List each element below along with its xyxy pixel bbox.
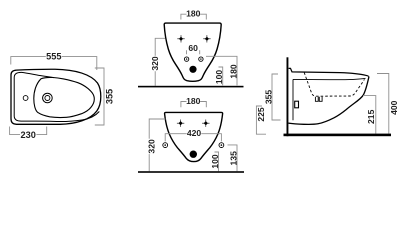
svg-text:355: 355	[104, 89, 114, 104]
dimension 355 line (plan right)	[95, 68, 104, 125]
svg-text:420: 420	[187, 128, 202, 138]
back inner edge	[292, 79, 294, 120]
dimension 420 line	[165, 134, 221, 142]
dimension 555 line	[11, 57, 97, 70]
dimension 320 lower	[149, 119, 165, 171]
dimension 100 upper	[219, 67, 223, 85]
svg-text:320: 320	[150, 56, 160, 71]
ground line upper	[138, 86, 244, 88]
svg-text:60: 60	[188, 43, 198, 53]
bowl hidden dashed line	[304, 72, 364, 96]
fixing hole crosshair lower-left	[177, 120, 184, 127]
svg-text:180: 180	[186, 9, 201, 19]
svg-text:400: 400	[389, 100, 399, 115]
spout double circle	[43, 93, 53, 103]
upper fixture outline	[164, 23, 221, 81]
dimension 355 label (plan)	[105, 88, 114, 105]
dimension 180 top label	[187, 10, 201, 17]
dimension 420 label	[187, 129, 202, 137]
fixing hole crosshair lower-right	[202, 120, 209, 127]
svg-text:100: 100	[214, 70, 224, 85]
svg-text:355: 355	[264, 90, 274, 105]
plan inner bowl rim	[34, 77, 95, 117]
plan outline	[11, 69, 101, 124]
svg-text:135: 135	[229, 151, 239, 166]
inlet circle right	[199, 57, 203, 61]
dimension 180 lower label	[187, 97, 201, 104]
dimension 60 ticks	[187, 50, 200, 54]
svg-text:180: 180	[186, 96, 201, 106]
dimension 355 side	[272, 74, 281, 120]
dimension 230 line	[10, 127, 47, 135]
side fixing circle left	[163, 143, 168, 148]
dimension 555 label	[46, 52, 62, 61]
svg-text:320: 320	[146, 139, 156, 154]
dimension 215 side	[363, 96, 376, 134]
dimension 100 lower	[215, 152, 219, 171]
svg-text:230: 230	[21, 130, 36, 140]
fixing hole crosshair left	[177, 35, 184, 42]
dimension 400 side	[377, 74, 389, 134]
svg-text:225: 225	[256, 107, 266, 122]
svg-text:100: 100	[210, 154, 220, 169]
svg-text:180: 180	[229, 64, 239, 79]
dimension 180 right upper	[206, 56, 237, 85]
tap hole	[23, 96, 28, 101]
wall line	[287, 57, 289, 136]
dimension 225 side	[256, 106, 266, 134]
drain hole upper	[189, 66, 196, 73]
dimension 60 label	[188, 44, 198, 51]
inlet fitting hidden marks	[315, 97, 322, 102]
dimension 180 top bracket	[181, 14, 206, 19]
rim profile top	[289, 68, 369, 76]
inlet circle left	[184, 57, 188, 61]
svg-text:555: 555	[46, 52, 61, 62]
front curve	[288, 77, 369, 125]
lower fixture outline	[165, 112, 223, 161]
side fixing circle right	[219, 143, 224, 148]
plan deck inner line	[14, 72, 99, 121]
ground line side	[284, 134, 392, 137]
wall outlet rect	[295, 101, 299, 108]
drain hole lower	[190, 151, 197, 158]
rim inner band line	[293, 78, 366, 79]
svg-text:215: 215	[366, 109, 376, 124]
dimension 135 lower	[228, 145, 238, 171]
fixing hole crosshair right	[203, 35, 210, 42]
dimension 320 upper	[155, 38, 165, 86]
dimension 230 label	[20, 131, 36, 140]
dimension 180 lower bracket	[181, 102, 206, 108]
ground line lower	[138, 171, 244, 173]
